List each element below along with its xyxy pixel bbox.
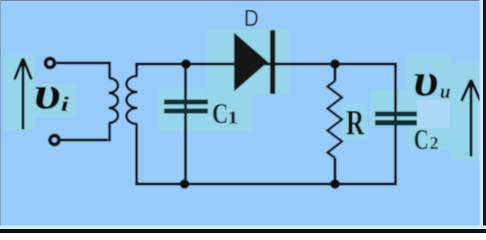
wire: bottom rail — [135, 183, 397, 186]
wire: R branch top stub — [334, 64, 337, 81]
capacitor C1 plates — [164, 100, 208, 105]
frame: right dark border — [483, 0, 486, 233]
input terminal top — [46, 59, 55, 68]
svg-text:C: C — [414, 125, 429, 156]
capacitor C2 plates — [375, 112, 417, 117]
frame: top edge line — [0, 0, 486, 1]
diode D cathode bar — [270, 30, 275, 94]
vu arrow — [462, 80, 481, 157]
frame: left edge line — [0, 0, 1, 233]
junction node: bottom rail / C1 — [180, 179, 190, 189]
frame: bottom light strip — [0, 226, 486, 230]
svg-text:υ: υ — [34, 69, 62, 120]
wire: top rail — [135, 63, 395, 66]
frame: right light strip — [480, 0, 484, 233]
frame: bottom dark bar — [0, 229, 486, 233]
highlight box: C1 plates — [158, 88, 206, 131]
highlight box: vi label — [34, 84, 76, 118]
junction node: top rail / C1 — [181, 59, 191, 69]
highlight box: C2 label — [408, 96, 458, 150]
resistor R zigzag — [328, 81, 343, 158]
highlight box: vu label — [407, 55, 451, 94]
vi arrow — [15, 59, 32, 130]
transformer T1 secondary winding — [127, 63, 138, 184]
highlight box: R label — [342, 104, 367, 140]
highlight box: diode D — [207, 29, 289, 95]
wire: top-left from input terminal to transformer primary — [57, 62, 111, 65]
wire: bottom-left from input terminal to transformer primary — [61, 139, 108, 142]
transformer T1 primary winding — [109, 62, 119, 142]
diode D triangle (anode) — [234, 33, 268, 92]
svg-text:C: C — [212, 99, 228, 130]
junction node: bottom rail / R — [330, 179, 340, 189]
svg-text:1: 1 — [227, 107, 239, 127]
svg-text:u: u — [440, 81, 451, 103]
highlight box: vi arrow — [4, 55, 35, 130]
svg-text:2: 2 — [430, 133, 439, 153]
highlight box: vu arrow — [450, 63, 482, 160]
svg-text:i: i — [61, 92, 70, 116]
wire: R branch bottom stub — [334, 158, 337, 184]
svg-text:υ: υ — [413, 55, 439, 106]
highlight box: C1 label — [206, 94, 252, 131]
pale inner box near C2 — [417, 100, 450, 128]
svg-text:R: R — [346, 103, 364, 143]
svg-text:D: D — [244, 5, 259, 31]
junction node: top rail / R — [330, 59, 340, 69]
input terminal bottom — [50, 136, 59, 145]
wire: right edge through C2 — [394, 63, 397, 184]
highlight box: C2 plates — [370, 89, 414, 127]
wire: C1 branch — [184, 64, 187, 184]
